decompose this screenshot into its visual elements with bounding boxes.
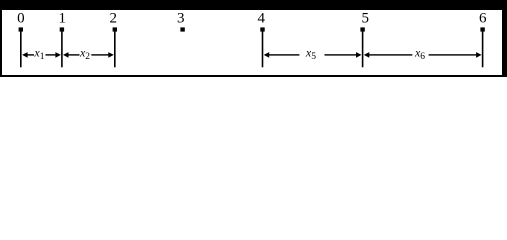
svg-text:5: 5	[362, 11, 370, 27]
node label 4	[257, 11, 265, 27]
node label 5	[362, 11, 370, 27]
arrow x2 left shaft	[68, 54, 80, 55]
arrow x2 right head	[108, 52, 114, 58]
node dot 6	[480, 27, 484, 31]
arrow x6 right head	[476, 52, 482, 58]
arrow x5 right head	[356, 52, 362, 58]
arrow x5 left shaft	[269, 54, 300, 55]
label x2	[79, 46, 90, 62]
arrow x1 right shaft	[46, 54, 57, 55]
svg-text:x1: x1	[33, 46, 44, 62]
node label 1	[58, 11, 66, 27]
svg-text:3: 3	[177, 11, 185, 27]
svg-text:0: 0	[17, 11, 25, 27]
arrow x6 right shaft	[429, 54, 477, 55]
svg-text:6: 6	[479, 11, 487, 27]
node dot 1	[60, 27, 64, 31]
frame bottom border	[0, 75, 507, 77]
tick line 2	[114, 31, 116, 68]
frame left border	[0, 0, 2, 77]
arrow x5 right shaft	[325, 54, 357, 55]
arrow x5 left head	[264, 52, 270, 58]
node dot 5	[360, 27, 364, 31]
svg-text:1: 1	[58, 11, 66, 27]
tick line 4	[262, 31, 264, 68]
frame top bar	[0, 0, 507, 10]
node dot 0	[19, 27, 23, 31]
arrow x1 left head	[22, 52, 28, 58]
arrow x6 left head	[364, 52, 370, 58]
svg-text:x2: x2	[79, 46, 90, 62]
frame right border	[502, 0, 507, 77]
label x5	[305, 46, 316, 62]
node label 3	[177, 11, 185, 27]
tick line 0	[20, 31, 22, 68]
node dot 4	[260, 27, 264, 31]
arrow x1 right head	[55, 52, 61, 58]
node dot 3	[180, 27, 184, 31]
arrow x2 left head	[63, 52, 69, 58]
label x1	[33, 46, 44, 62]
node label 0	[17, 11, 25, 27]
svg-text:x6: x6	[414, 46, 425, 62]
node label 2	[110, 11, 118, 27]
label x6	[414, 46, 425, 62]
svg-text:2: 2	[110, 11, 118, 27]
tick line 1	[61, 31, 63, 68]
svg-text:x5: x5	[305, 46, 316, 62]
svg-text:4: 4	[257, 11, 265, 27]
tick line 5	[362, 31, 364, 68]
node dot 2	[113, 27, 117, 31]
arrow x2 right shaft	[91, 54, 109, 55]
arrow x6 left shaft	[369, 54, 413, 55]
tick line 6	[482, 31, 484, 68]
arrow x1 left shaft	[27, 54, 35, 55]
node label 6	[479, 11, 487, 27]
